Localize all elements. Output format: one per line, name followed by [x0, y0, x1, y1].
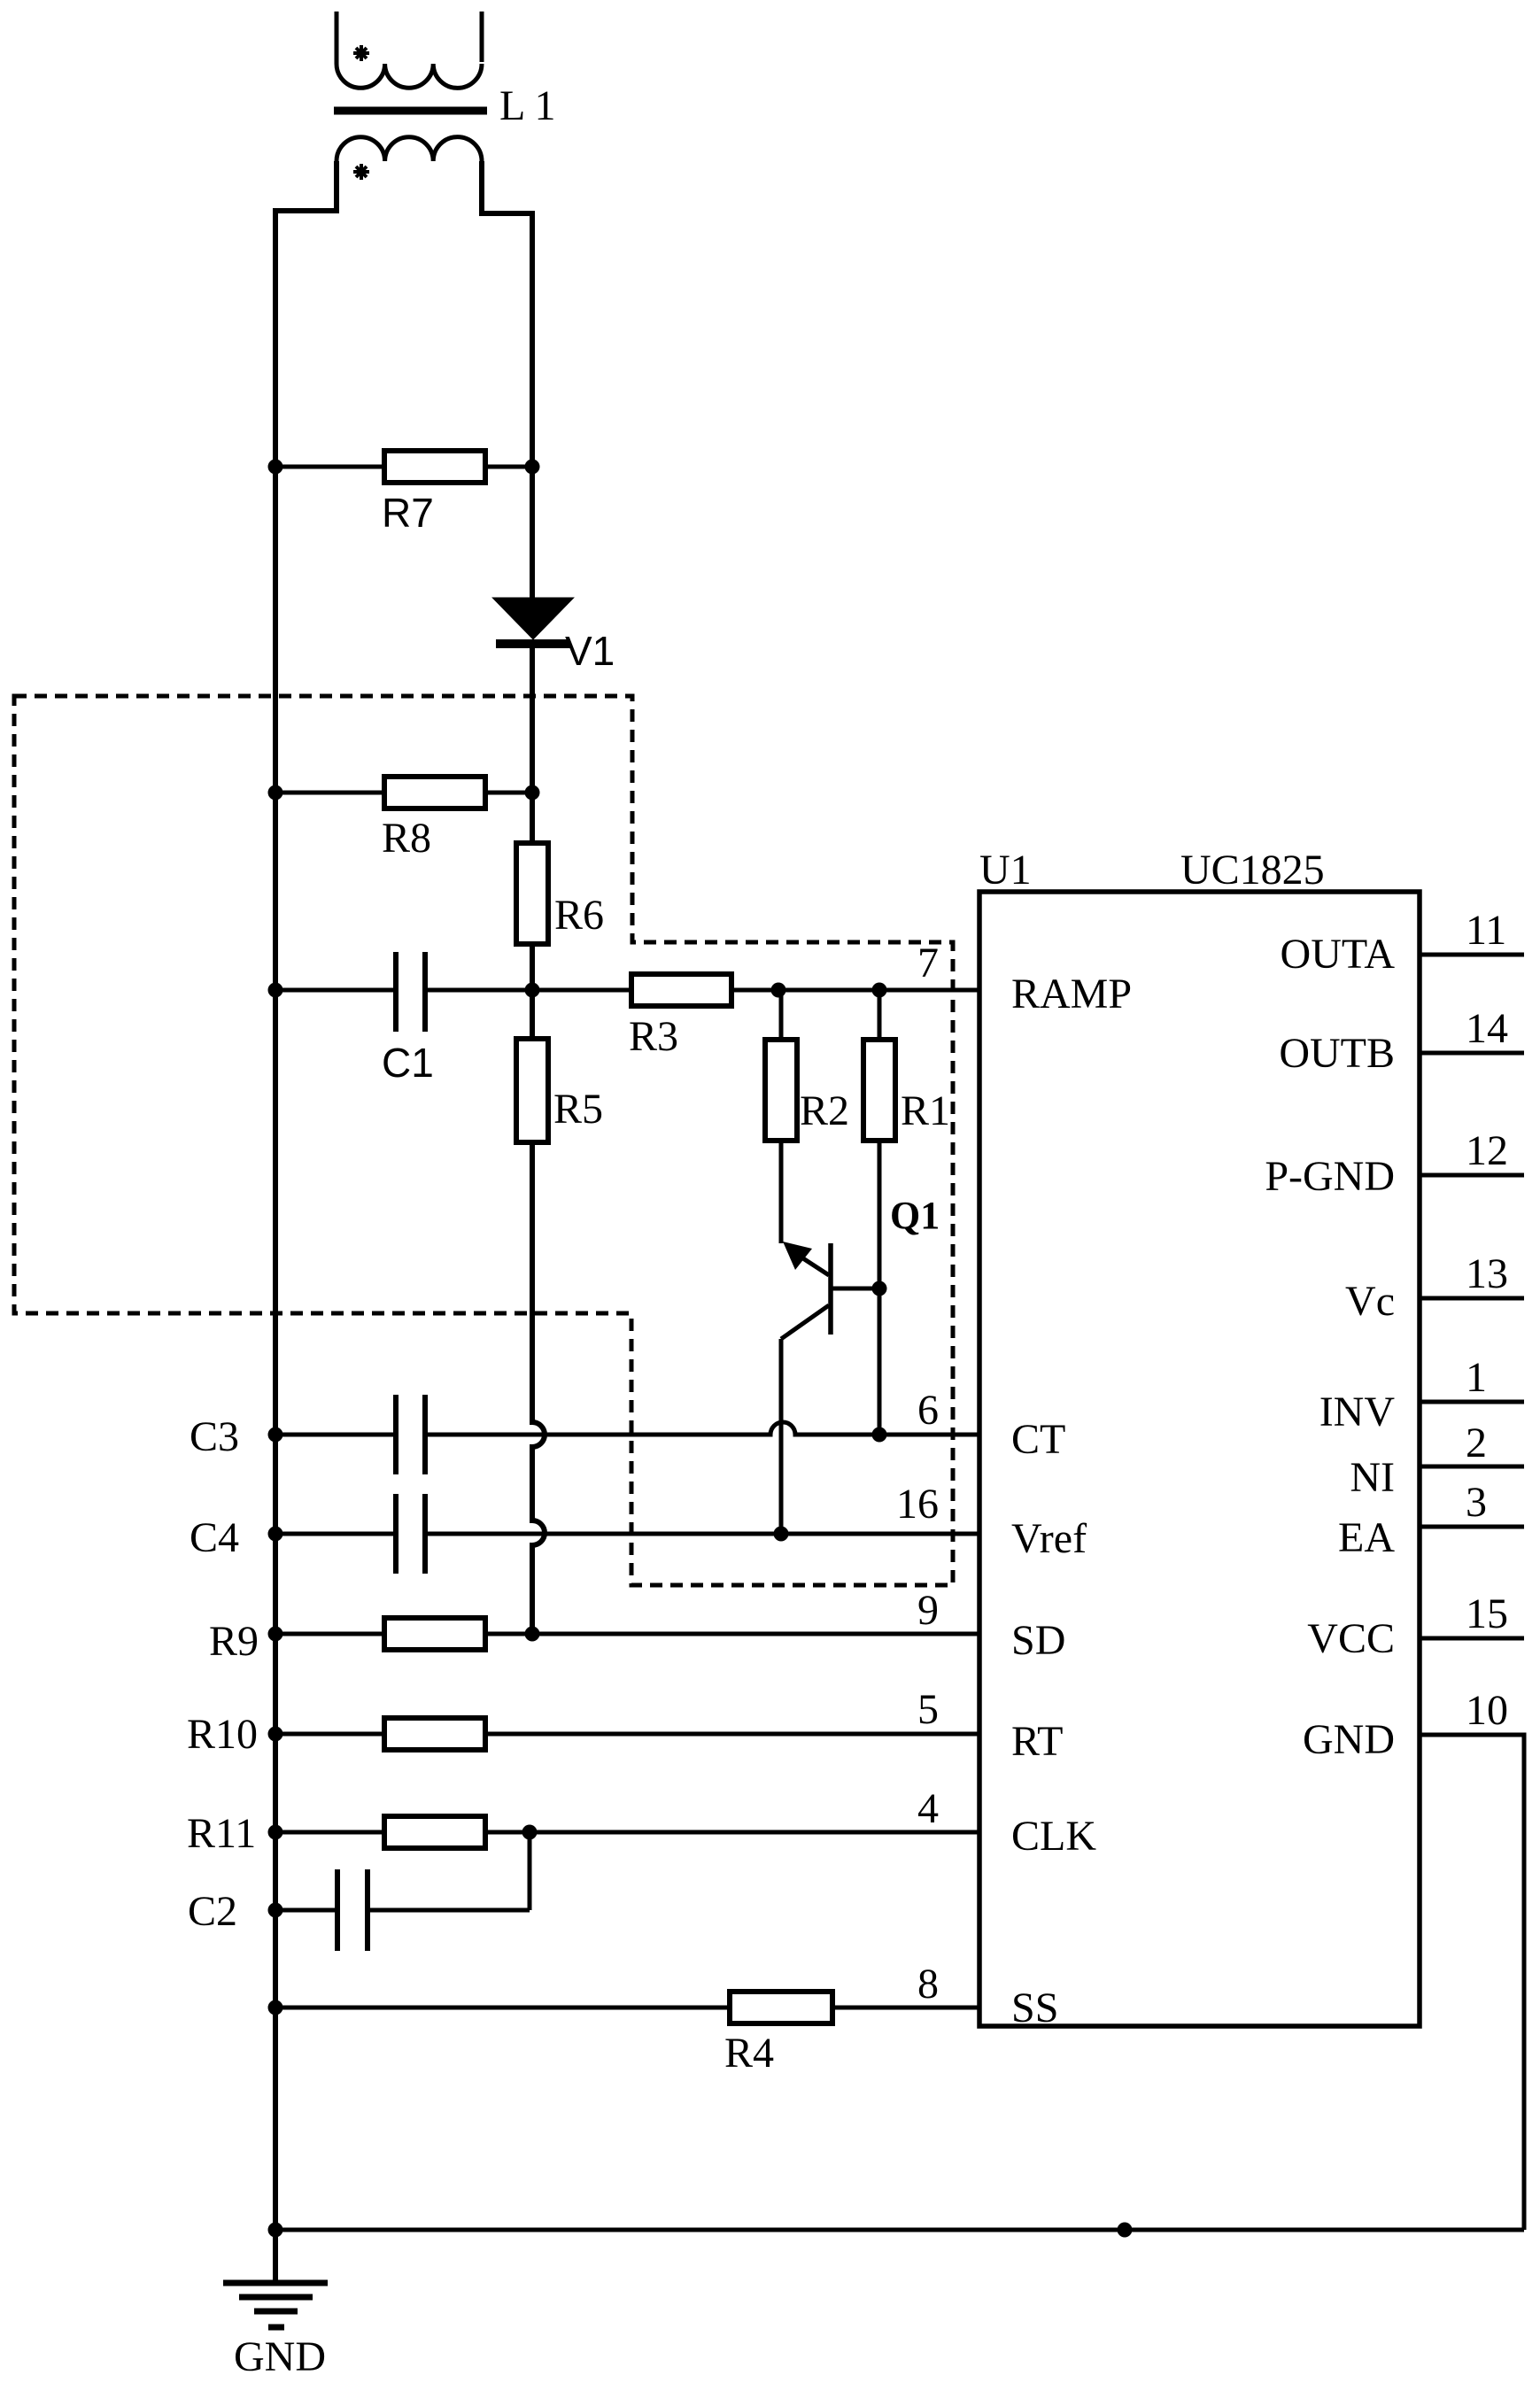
- svg-text:OUTA: OUTA: [1281, 931, 1396, 978]
- svg-text:1: 1: [1466, 1354, 1487, 1401]
- svg-text:5: 5: [917, 1686, 939, 1733]
- svg-text:8: 8: [917, 1961, 939, 2008]
- svg-text:Q1: Q1: [890, 1194, 940, 1237]
- svg-text:CLK: CLK: [1011, 1813, 1096, 1860]
- svg-text:Vc: Vc: [1345, 1278, 1395, 1325]
- svg-text:10: 10: [1466, 1687, 1508, 1734]
- svg-text:NI: NI: [1350, 1454, 1395, 1501]
- svg-text:R3: R3: [629, 1013, 678, 1060]
- svg-text:RT: RT: [1011, 1718, 1063, 1765]
- svg-text:C2: C2: [188, 1888, 237, 1935]
- svg-text:R7: R7: [382, 490, 434, 536]
- svg-text:7: 7: [917, 940, 939, 986]
- svg-text:INV: INV: [1319, 1389, 1396, 1435]
- svg-text:OUTB: OUTB: [1279, 1030, 1395, 1077]
- svg-text:EA: EA: [1338, 1514, 1395, 1561]
- svg-text:R5: R5: [553, 1086, 603, 1133]
- svg-text:Vref: Vref: [1011, 1515, 1087, 1562]
- svg-text:15: 15: [1466, 1590, 1508, 1637]
- svg-text:9: 9: [917, 1587, 939, 1634]
- svg-text:C4: C4: [190, 1514, 239, 1561]
- svg-text:R8: R8: [382, 815, 431, 862]
- svg-text:R11: R11: [187, 1810, 256, 1857]
- svg-text:CT: CT: [1011, 1416, 1065, 1463]
- svg-text:12: 12: [1466, 1127, 1508, 1174]
- svg-text:R10: R10: [187, 1711, 258, 1758]
- svg-text:3: 3: [1466, 1479, 1487, 1526]
- svg-text:R4: R4: [724, 2030, 774, 2077]
- svg-text:SD: SD: [1011, 1617, 1065, 1664]
- svg-text:4: 4: [917, 1785, 939, 1832]
- svg-text:11: 11: [1466, 907, 1506, 954]
- svg-text:SS: SS: [1011, 1985, 1058, 2031]
- svg-text:R2: R2: [800, 1087, 849, 1134]
- svg-text:C1: C1: [382, 1040, 434, 1086]
- svg-text:14: 14: [1466, 1005, 1508, 1052]
- svg-text:U1: U1: [979, 847, 1032, 894]
- svg-text:R6: R6: [554, 892, 604, 939]
- svg-text:2: 2: [1466, 1420, 1487, 1466]
- svg-text:VCC: VCC: [1307, 1615, 1395, 1662]
- svg-text:R9: R9: [209, 1618, 259, 1665]
- svg-text:13: 13: [1466, 1250, 1508, 1297]
- svg-text:RAMP: RAMP: [1011, 971, 1132, 1017]
- svg-text:UC1825: UC1825: [1180, 847, 1325, 894]
- svg-text:P-GND: P-GND: [1265, 1153, 1395, 1200]
- svg-text:C3: C3: [190, 1413, 239, 1460]
- svg-text:6: 6: [917, 1387, 939, 1434]
- svg-text:V1: V1: [565, 628, 615, 674]
- svg-text:L 1: L 1: [499, 82, 556, 129]
- svg-text:16: 16: [896, 1481, 939, 1528]
- svg-text:R1: R1: [901, 1087, 950, 1134]
- svg-text:GND: GND: [1303, 1716, 1395, 1763]
- svg-text:GND: GND: [234, 2333, 326, 2380]
